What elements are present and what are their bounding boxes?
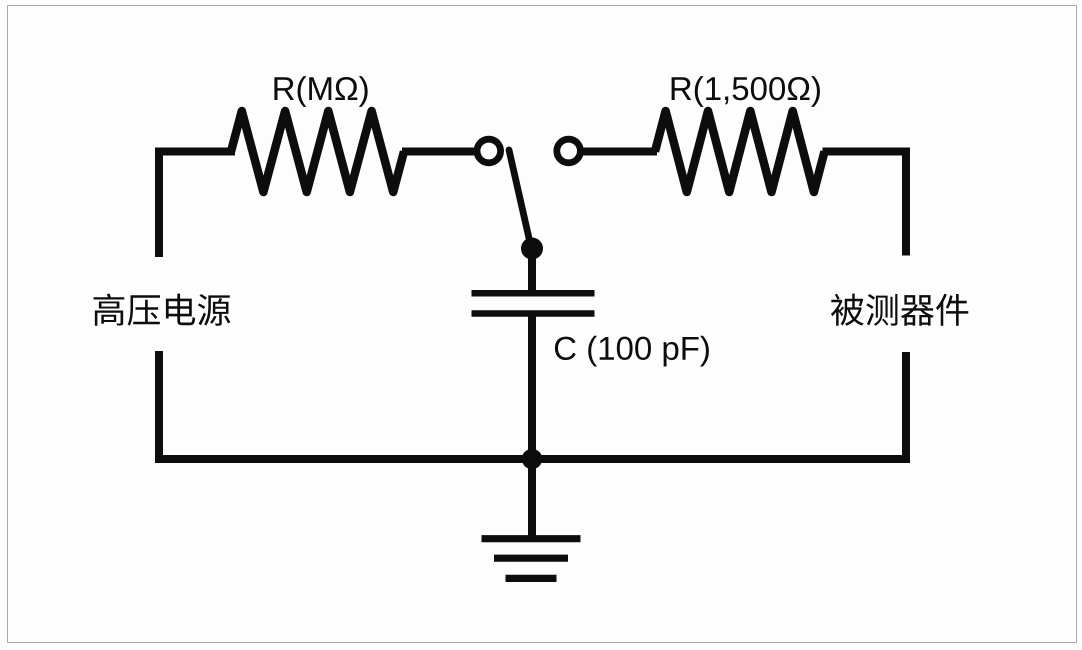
label 被测器件: [831, 294, 968, 326]
node: ground junction: [522, 449, 542, 469]
wire: bottom rail: [155, 455, 910, 463]
wire: switch throw to R2: [582, 148, 657, 156]
resistor R(1,500 ohm): [655, 111, 825, 192]
wire: right rail lower segment: [902, 352, 910, 459]
node: switch common / capacitor top: [521, 238, 543, 260]
label R(M ohm): [274, 76, 367, 107]
wire: left rail top corner: [159, 152, 235, 258]
ground stem: [528, 459, 536, 539]
label 高压电源: [94, 293, 231, 325]
ground bar 2: [494, 555, 568, 562]
wire: left rail lower segment: [155, 351, 163, 459]
switch terminal (pole) circle: [477, 139, 501, 163]
label R(1,500 ohm): [672, 76, 820, 107]
switch lever S1: [509, 150, 531, 247]
capacitor C1 top plate: [472, 290, 595, 297]
wire: capacitor to bottom rail: [528, 314, 536, 460]
wire: right rail top corner: [823, 152, 907, 256]
wire: R1 to switch pole: [402, 148, 476, 156]
ground bar 1: [482, 535, 581, 542]
switch terminal (throw) circle: [557, 139, 581, 163]
wire: node to capacitor: [528, 249, 536, 294]
resistor R(M ohm): [231, 111, 404, 192]
ground bar 3: [506, 575, 557, 582]
capacitor C1 bottom plate: [472, 310, 595, 317]
label C (100 pF): [555, 336, 709, 367]
